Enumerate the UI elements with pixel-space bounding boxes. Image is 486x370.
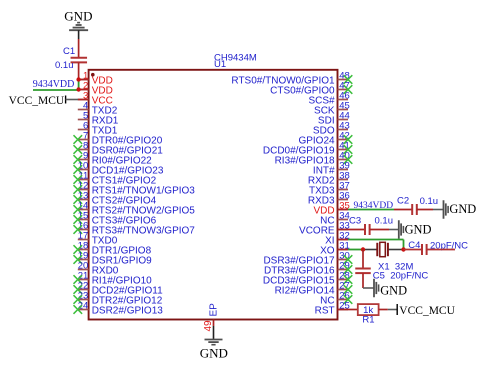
svg-text:0.1u: 0.1u — [55, 60, 74, 71]
svg-text:C3: C3 — [349, 216, 361, 227]
svg-text:C2: C2 — [397, 196, 409, 207]
svg-text:C1: C1 — [63, 46, 75, 57]
svg-text:GND: GND — [405, 222, 432, 236]
svg-text:0.1u: 0.1u — [420, 196, 439, 207]
svg-text:49: 49 — [203, 320, 214, 332]
svg-text:DSR2#/GPIO13: DSR2#/GPIO13 — [92, 305, 164, 316]
svg-text:GND: GND — [200, 346, 228, 361]
svg-text:C4: C4 — [408, 240, 420, 251]
svg-text:24: 24 — [78, 300, 89, 311]
svg-text:C5 20pF/NC: C5 20pF/NC — [373, 271, 429, 282]
svg-text:9434VDD: 9434VDD — [33, 79, 75, 90]
svg-text:EP: EP — [208, 303, 219, 317]
svg-text:RST: RST — [315, 305, 335, 316]
svg-text:VCC_MCU: VCC_MCU — [9, 95, 65, 107]
svg-text:0.1u: 0.1u — [375, 216, 394, 227]
svg-text:R1: R1 — [362, 315, 374, 326]
svg-text:GND: GND — [380, 283, 407, 297]
svg-text:VCC_MCU: VCC_MCU — [399, 305, 455, 317]
svg-text:U1: U1 — [214, 59, 226, 70]
svg-text:9434VDD: 9434VDD — [354, 201, 394, 211]
svg-text:GND: GND — [449, 202, 476, 216]
svg-text:GND: GND — [64, 9, 92, 24]
